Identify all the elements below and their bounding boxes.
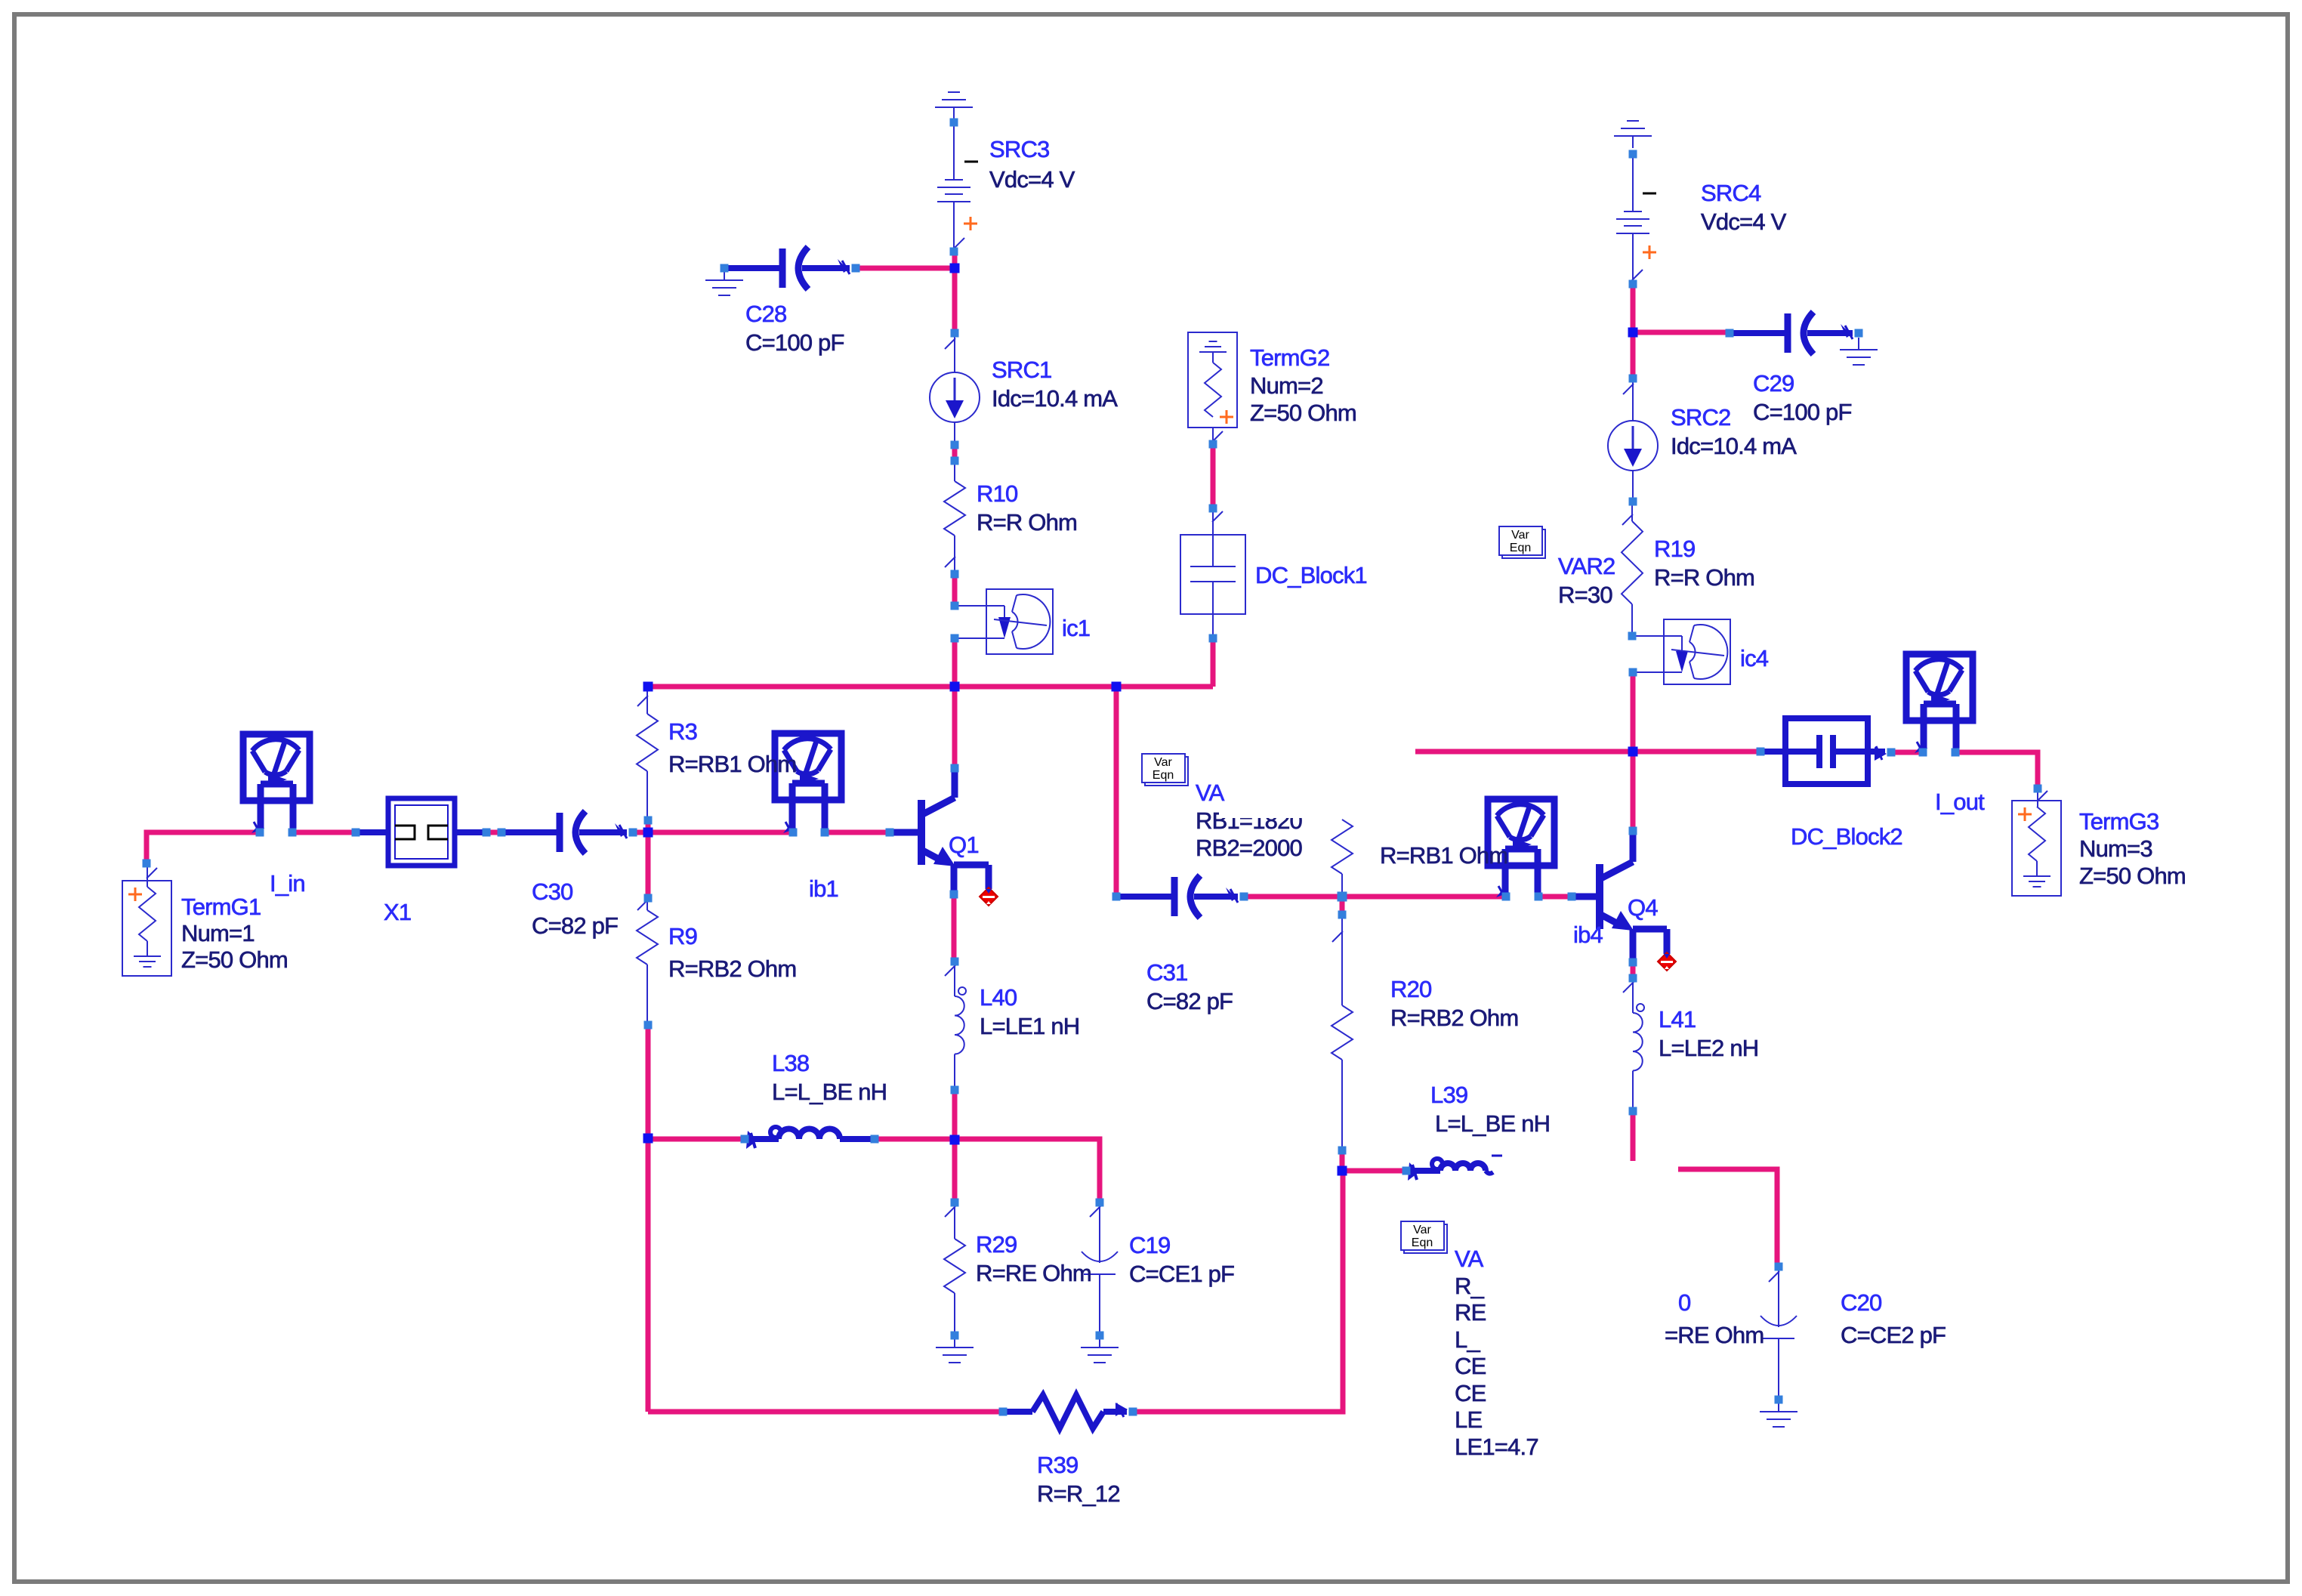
svg-text:L39: L39 (1430, 1082, 1467, 1108)
DC voltage source SRC3 plates (937, 180, 970, 202)
svg-text:Var: Var (1154, 756, 1172, 769)
pin tick SRC3 (954, 238, 964, 249)
svg-text:Var: Var (1413, 1224, 1431, 1236)
wire base rail stage2 (1244, 894, 1506, 900)
wire ic1 to rail (952, 638, 958, 687)
pin L38 right (871, 1135, 879, 1144)
pin C30 right (629, 829, 637, 837)
svg-text:Q1: Q1 (949, 832, 979, 858)
wire left column to bottom rail (646, 1139, 651, 1412)
svg-text:SRC3: SRC3 (989, 136, 1050, 162)
capacitor C28 (724, 247, 850, 289)
wire node A down to R9 (646, 832, 651, 898)
wire L39 row (1343, 1168, 1406, 1174)
DC block DC_Block2 (1760, 718, 1887, 784)
pin L41 bottom (1629, 1107, 1637, 1116)
ground below C28 (705, 268, 743, 295)
pin ic4 top (1628, 632, 1637, 641)
wire L41 bottom stub (1631, 1111, 1636, 1161)
svg-text:C31: C31 (1146, 959, 1187, 986)
svg-text:Eqn: Eqn (1412, 1236, 1433, 1249)
junction rail C31 (1112, 682, 1122, 692)
wire TermG1 to I_in (147, 832, 260, 863)
wire L38 row left (648, 1137, 745, 1142)
pin SRC1 top (951, 329, 959, 338)
svg-text:LE1=4.7: LE1=4.7 (1455, 1434, 1538, 1460)
svg-text:C19: C19 (1129, 1232, 1170, 1258)
wire R20 bottom stub (1340, 1150, 1345, 1171)
pin TermG3 (2034, 785, 2042, 793)
pin R20 top (1338, 911, 1347, 919)
wire DC_Block2 to I_out (1891, 750, 1923, 755)
pin I_in left (256, 829, 264, 837)
pin L38 left (741, 1135, 749, 1144)
svg-text:VAR2: VAR2 (1558, 553, 1615, 579)
junction rail R3 (643, 682, 653, 692)
wire SRC1 to R10 stub (952, 445, 958, 461)
wire R3 stub (646, 820, 651, 832)
svg-text:C28: C28 (745, 301, 786, 327)
svg-text:C29: C29 (1753, 370, 1794, 397)
svg-text:L40: L40 (980, 984, 1017, 1011)
svg-text:I_out: I_out (1935, 789, 1985, 815)
svg-text:VA: VA (1196, 779, 1225, 806)
svg-text:Idc=10.4 mA: Idc=10.4 mA (992, 385, 1118, 412)
pin tick L41 (1623, 982, 1634, 992)
wire C28 row (856, 266, 955, 271)
pin C20 top (1775, 1263, 1783, 1271)
transistor Q4 (1572, 834, 1667, 960)
pin Q4 collector (1629, 827, 1637, 835)
wire C20 feed (1678, 1169, 1777, 1267)
svg-text:R9: R9 (668, 923, 697, 949)
svg-text:Var: Var (1511, 529, 1529, 542)
junction base rail R column (1338, 892, 1347, 902)
wire C31 column (1114, 687, 1119, 897)
pin L40 bottom (951, 1086, 959, 1094)
resistor R3 (637, 689, 658, 820)
wire I_out to TermG3 (1955, 752, 2038, 789)
resistor R10 (944, 461, 965, 574)
wire node C to C29 (1633, 330, 1730, 335)
pin Q1 base (886, 829, 894, 837)
wire SRC3 to node B (952, 252, 958, 268)
pin tick R20 (1332, 931, 1343, 942)
pin I_out right (1952, 749, 1960, 757)
svg-text:LE: LE (1455, 1406, 1482, 1433)
pin L41 top (1629, 974, 1637, 983)
transistor Q1 (890, 770, 989, 894)
svg-text:R=30: R=30 (1558, 582, 1612, 608)
wire bottom rail to R39 (648, 1409, 1003, 1415)
pin Q4 base (1568, 893, 1576, 901)
pin C31 right (1240, 893, 1248, 901)
pin ib1 right (821, 829, 829, 837)
wire R20 top stub (1340, 897, 1345, 915)
svg-text:TermG1: TermG1 (181, 894, 261, 920)
svg-text:C=CE2 pF: C=CE2 pF (1841, 1322, 1946, 1348)
pin R39 right (1129, 1408, 1137, 1416)
junction L40 L38 row (950, 1135, 960, 1145)
svg-text:Num=2: Num=2 (1250, 372, 1323, 399)
pin SRC3 bottom (950, 248, 958, 256)
svg-text:C20: C20 (1841, 1289, 1882, 1316)
pin ib1 left (789, 829, 798, 837)
pin C19 bottom (1096, 1332, 1104, 1340)
wire R9 to L38 junction (646, 1025, 651, 1139)
svg-text:SRC1: SRC1 (992, 357, 1052, 383)
pin Q1 collector (951, 764, 959, 773)
svg-text:L41: L41 (1659, 1006, 1696, 1033)
svg-text:0: 0 (1678, 1289, 1691, 1316)
svg-text:L=LE1 nH: L=LE1 nH (980, 1013, 1079, 1039)
svg-text:DC_Block2: DC_Block2 (1791, 823, 1902, 850)
current meter ib4 (1488, 799, 1554, 900)
svg-text:R=RB2 Ohm: R=RB2 Ohm (1390, 1005, 1518, 1031)
terminal TermG2 (1188, 332, 1237, 428)
svg-text:R39: R39 (1037, 1452, 1078, 1478)
Var Eqn box VAR3 (1401, 1221, 1447, 1253)
wire L40 junction to R29 (952, 1141, 958, 1202)
ground above SRC3 (935, 92, 973, 119)
svg-text:ic4: ic4 (1740, 645, 1769, 671)
pin R10 bottom (951, 570, 959, 579)
junction R20 L39 row (1338, 1166, 1347, 1176)
pin X1 right (483, 829, 491, 837)
svg-text:Z=50 Ohm: Z=50 Ohm (2079, 863, 2186, 889)
wire R39 to R20 column (1133, 1171, 1343, 1412)
unconnected pin marker Q4 (1658, 952, 1676, 971)
pin I_out left (1919, 749, 1927, 757)
pin tick R19 (1622, 514, 1633, 525)
pin Q4 emitter (1629, 959, 1637, 967)
pin tick TermG3 (2037, 791, 2047, 801)
svg-text:R=R Ohm: R=R Ohm (1654, 564, 1754, 591)
pin C29 right (1855, 329, 1863, 338)
Var Eqn box VAR1 (1142, 754, 1188, 786)
pin R9 bottom (644, 1021, 653, 1030)
svg-text:R19: R19 (1654, 536, 1695, 562)
junction rail collector Q1 (950, 682, 960, 692)
wire Q4 emitter stub (1631, 962, 1636, 978)
pin DC_Block2 left (1757, 748, 1765, 756)
wire X1 to C30 (486, 830, 501, 835)
wire right rail (1415, 749, 1760, 755)
pin R29 bottom (951, 1332, 959, 1340)
pin SRC2 top (1629, 375, 1637, 383)
resistor R20 (1332, 915, 1353, 1150)
pin tick C19 (1090, 1206, 1100, 1217)
inductor L38 (745, 1127, 875, 1149)
junction L38 row left (643, 1134, 653, 1144)
svg-text:Eqn: Eqn (1510, 542, 1531, 554)
pin ib4 right (1535, 893, 1543, 901)
svg-text:TermG2: TermG2 (1250, 344, 1329, 371)
wire node A to ib1 (648, 830, 793, 835)
pin tick R10 (945, 557, 955, 567)
pin SRC4 bottom (1629, 280, 1637, 289)
pin SRC3 top (950, 119, 958, 127)
resistor R39 (1003, 1395, 1128, 1428)
ground above SRC4 (1614, 121, 1652, 148)
ground below C29 (1840, 338, 1878, 365)
svg-text:SRC4: SRC4 (1701, 180, 1761, 206)
pin DC_Block2 right (1887, 749, 1896, 757)
pin C19 top (1096, 1199, 1104, 1207)
svg-text:R=RB2 Ohm: R=RB2 Ohm (668, 955, 796, 982)
svg-text:ic1: ic1 (1062, 615, 1090, 641)
subcircuit X1 (356, 798, 486, 866)
svg-text:Idc=10.4 mA: Idc=10.4 mA (1671, 433, 1797, 459)
capacitor C19 (1082, 1202, 1118, 1335)
svg-text:I_in: I_in (270, 870, 305, 897)
svg-text:Vdc=4 V: Vdc=4 V (1701, 208, 1787, 235)
svg-text:ib4: ib4 (1573, 921, 1603, 948)
pin L39 left (1402, 1167, 1411, 1175)
terminal TermG3 (2012, 801, 2061, 896)
svg-text:C30: C30 (532, 878, 573, 905)
svg-text:ib1: ib1 (809, 875, 838, 902)
svg-text:L38: L38 (772, 1050, 809, 1076)
svg-text:C=CE1 pF: C=CE1 pF (1129, 1261, 1234, 1287)
pin tick R29 (945, 1206, 955, 1217)
SRC4 leads (1632, 157, 1634, 284)
svg-text:L=L_BE nH: L=L_BE nH (1435, 1110, 1550, 1137)
svg-text:L=LE2 nH: L=LE2 nH (1659, 1035, 1758, 1061)
ground below C19 (1081, 1335, 1119, 1363)
wire Q1 emitter to L40 (952, 894, 957, 962)
svg-text:VA: VA (1455, 1246, 1484, 1272)
pin R3 bottom (644, 817, 653, 825)
pin Q1 emitter (950, 891, 958, 899)
terminal TermG1 (122, 881, 171, 976)
pin R39 left (999, 1408, 1008, 1416)
svg-text:Num=1: Num=1 (181, 920, 255, 946)
pin tick DC_Block1 (1212, 511, 1223, 522)
DC current source SRC1 (930, 372, 980, 422)
wire rail to DC_Block1 (1211, 638, 1216, 687)
pin C28 left (721, 264, 729, 273)
svg-text:R=R Ohm: R=R Ohm (977, 509, 1077, 536)
pin R9 top (644, 894, 653, 903)
pin C30 left (498, 829, 506, 837)
pin tick TermG1 (147, 868, 157, 878)
svg-text:C=100 pF: C=100 pF (745, 329, 844, 356)
pin DC_Block1 bottom (1209, 634, 1217, 643)
svg-text:=RE Ohm: =RE Ohm (1665, 1322, 1764, 1348)
wire C30 to node A (633, 830, 648, 835)
pin C20 bottom (1775, 1396, 1783, 1404)
svg-text:Vdc=4 V: Vdc=4 V (989, 166, 1075, 193)
resistor R29 (944, 1202, 965, 1335)
svg-text:Z=50 Ohm: Z=50 Ohm (181, 946, 288, 973)
resistor R9 (637, 898, 658, 1025)
pin SRC1 bottom (951, 441, 959, 449)
SRC2 leads (1632, 378, 1634, 502)
wire L40 to L38 row (952, 1090, 958, 1141)
wire ic4 to right rail (1631, 672, 1636, 752)
capacitor C29 (1730, 312, 1853, 354)
wire rail to Q1 collector (952, 687, 958, 768)
pin SRC2 bottom (1629, 498, 1637, 506)
pin ic4 bottom (1629, 668, 1637, 677)
resistor R19 (1622, 502, 1643, 636)
plus sign SRC3 (964, 217, 977, 230)
wire ib1 to Q1 base (825, 830, 890, 835)
svg-text:DC_Block1: DC_Block1 (1255, 562, 1367, 588)
current meter I_out (1906, 654, 1973, 755)
pin R10 top (951, 457, 959, 465)
pin tick SRC4 (1632, 270, 1643, 280)
svg-text:L_: L_ (1455, 1326, 1480, 1353)
svg-text:RE: RE (1455, 1299, 1486, 1326)
pin tick TermG2 (1212, 431, 1223, 442)
svg-text:C=82 pF: C=82 pF (1146, 988, 1233, 1014)
pin TermG2 (1209, 440, 1217, 449)
pin ib4 left (1502, 893, 1510, 901)
pin I_in right (289, 829, 297, 837)
capacitor C30 (501, 811, 627, 854)
Var Eqn box VAR2 (1499, 526, 1545, 558)
wire TermG2 to DC_Block1 (1211, 444, 1216, 508)
svg-text:Eqn: Eqn (1153, 769, 1174, 782)
inductor L40 (955, 962, 966, 1090)
svg-text:R=RB1 Ohm: R=RB1 Ohm (668, 751, 796, 777)
pin ic1 top (951, 602, 959, 610)
inductor L41 (1633, 978, 1644, 1111)
capacitor C20 (1760, 1267, 1797, 1400)
TermG3 top lead (2037, 789, 2038, 807)
svg-text:R29: R29 (976, 1231, 1017, 1258)
pin tick L40 (945, 965, 955, 976)
unconnected pin marker Q1 (980, 888, 998, 906)
svg-text:C=100 pF: C=100 pF (1753, 399, 1852, 425)
pin tick R9 (637, 900, 648, 910)
wire ib4 to Q4 base (1538, 894, 1572, 900)
wire SRC4 to node C (1631, 284, 1636, 332)
pin R29 top (951, 1199, 959, 1207)
pin C29 left (1726, 329, 1734, 338)
svg-text:X1: X1 (384, 899, 411, 925)
svg-text:Z=50 Ohm: Z=50 Ohm (1250, 400, 1356, 426)
white clip band over RB1 label (1219, 805, 1378, 818)
DC voltage source SRC4 plates (1616, 211, 1649, 233)
pin SRC4 top (1629, 150, 1637, 159)
SRC3 leads (953, 125, 955, 252)
DC block DC_Block1 (1180, 508, 1245, 638)
svg-text:R_: R_ (1455, 1273, 1485, 1299)
junction SRC4 C29 (1628, 328, 1638, 338)
pin tick SRC1 (945, 338, 955, 349)
pin C28 right (852, 264, 860, 273)
inductor L39 (1406, 1156, 1502, 1181)
resistor RB1 stage2 (1332, 820, 1353, 897)
svg-text:R10: R10 (977, 480, 1018, 507)
svg-text:L=L_BE nH: L=L_BE nH (772, 1079, 887, 1105)
ground below R29 (936, 1335, 974, 1363)
ground below C20 (1760, 1400, 1797, 1427)
svg-text:R=R_12: R=R_12 (1037, 1480, 1120, 1507)
svg-text:C=82 pF: C=82 pF (532, 912, 618, 939)
pin ic1 bottom (951, 634, 959, 643)
wire top rail (648, 684, 1213, 690)
svg-text:CE: CE (1455, 1353, 1486, 1379)
pin tick SRC2 (1623, 384, 1634, 394)
pin R20 bottom (1338, 1147, 1347, 1155)
pin tick C20 (1769, 1271, 1779, 1282)
svg-text:R=RB1 Ohm: R=RB1 Ohm (1380, 842, 1507, 869)
minus sign SRC3 (964, 161, 978, 163)
pin TermG1 (143, 860, 151, 868)
plus sign SRC4 (1643, 245, 1656, 259)
svg-text:Q4: Q4 (1628, 894, 1658, 921)
DC current source SRC2 (1608, 421, 1658, 471)
capacitor C31 (1116, 875, 1238, 918)
current probe ic4 (1632, 619, 1730, 684)
wire node C to SRC2 (1631, 332, 1636, 378)
svg-text:CE: CE (1455, 1380, 1486, 1406)
pin C31 left (1112, 893, 1121, 901)
SRC1 leads (954, 333, 955, 445)
TermG2 bottom lead (1212, 428, 1214, 444)
lead TermG1 pin (147, 863, 148, 887)
junction node A (643, 828, 653, 838)
pin tick R3 (637, 696, 648, 706)
svg-text:R=RE Ohm: R=RE Ohm (976, 1260, 1091, 1286)
svg-text:R20: R20 (1390, 976, 1432, 1002)
svg-text:TermG3: TermG3 (2079, 808, 2159, 835)
svg-text:SRC2: SRC2 (1671, 404, 1731, 431)
wire rail to Q4 collector (1631, 752, 1636, 831)
wire I_in to X1 (292, 830, 356, 835)
minus sign SRC4 (1643, 193, 1656, 195)
wire L38 row right (875, 1139, 1100, 1202)
junction right rail ic4 (1628, 747, 1638, 757)
svg-text:R3: R3 (668, 718, 697, 745)
pin L40 top (951, 958, 959, 966)
wire R10 to ic1 (952, 574, 958, 606)
svg-text:RB2=2000: RB2=2000 (1196, 835, 1303, 861)
svg-text:Num=3: Num=3 (2079, 835, 2152, 862)
pin X1 left (352, 829, 360, 837)
current meter I_in (243, 734, 310, 835)
wire node B to SRC1 (952, 268, 958, 333)
current probe ic1 (955, 589, 1053, 654)
pin DC_Block1 top (1209, 505, 1217, 513)
junction SRC3 C28 (950, 264, 960, 273)
current meter ib1 (775, 733, 841, 835)
